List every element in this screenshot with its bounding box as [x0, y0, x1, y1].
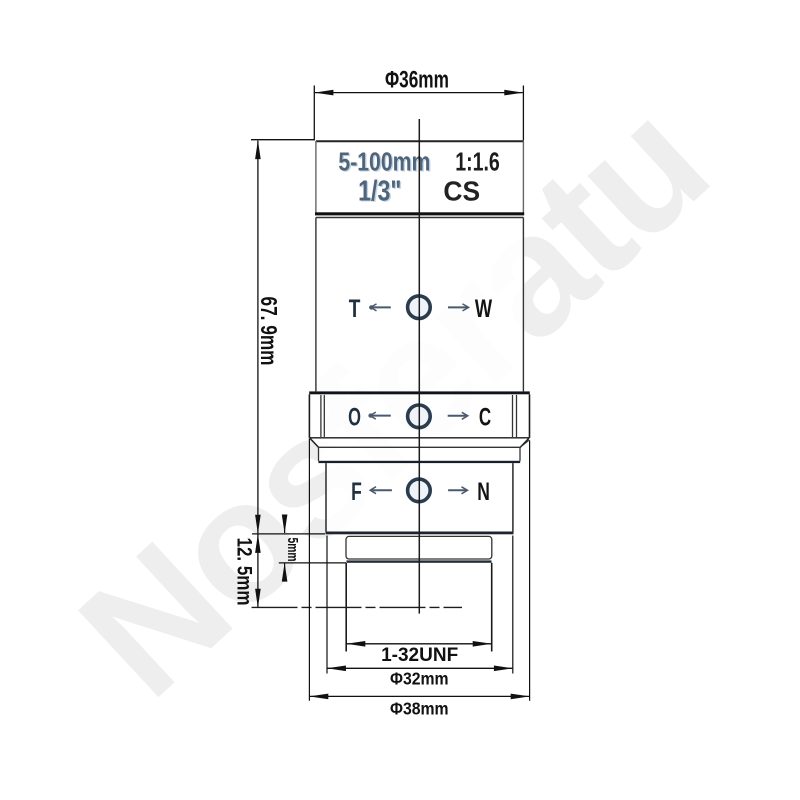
svg-text:CS: CS: [443, 176, 480, 207]
main body (zoom ring): [316, 218, 524, 392]
svg-text:W: W: [475, 294, 493, 323]
svg-text:1/3": 1/3": [358, 174, 401, 207]
dim phi36: [313, 86, 315, 141]
top cap bottom thick: [315, 212, 524, 215]
band ring: [319, 447, 521, 461]
svg-text:1:1.6: 1:1.6: [455, 147, 500, 176]
center lines: [418, 119, 420, 614]
dim 12.5: [252, 533, 325, 535]
svg-text:N: N: [477, 477, 490, 506]
focus flange ring: [309, 391, 530, 394]
flange rib lines: [320, 396, 322, 437]
svg-text:1-32UNF: 1-32UNF: [381, 645, 458, 666]
svg-text:5mm: 5mm: [284, 538, 302, 562]
svg-text:F: F: [351, 477, 362, 506]
svg-text:5-100mm: 5-100mm: [338, 148, 430, 176]
svg-text:C: C: [479, 403, 491, 431]
circles on rings: [408, 296, 431, 502]
dim phi38: [308, 439, 310, 701]
top cap box: [316, 141, 524, 213]
white body silhouette (occludes watermark): [309, 140, 531, 651]
svg-text:12. 5mm: 12. 5mm: [232, 538, 255, 606]
svg-text:Φ36mm: Φ36mm: [385, 67, 449, 93]
mount barrel 1-32UNF: [345, 563, 347, 652]
F/N box: [326, 463, 513, 531]
svg-text:T: T: [349, 295, 361, 323]
thread relief: [346, 536, 492, 559]
dim phi32: [326, 536, 328, 674]
chamfers flange->band: [310, 438, 319, 447]
dim 67.9: [251, 139, 314, 141]
svg-text:67. 9mm: 67. 9mm: [255, 297, 280, 366]
svg-text:Φ38mm: Φ38mm: [390, 699, 449, 719]
svg-text:Φ32mm: Φ32mm: [390, 669, 449, 689]
dim 5mm: [284, 516, 286, 533]
svg-text:O: O: [348, 404, 361, 431]
dim 1-32UNF: [347, 643, 491, 645]
